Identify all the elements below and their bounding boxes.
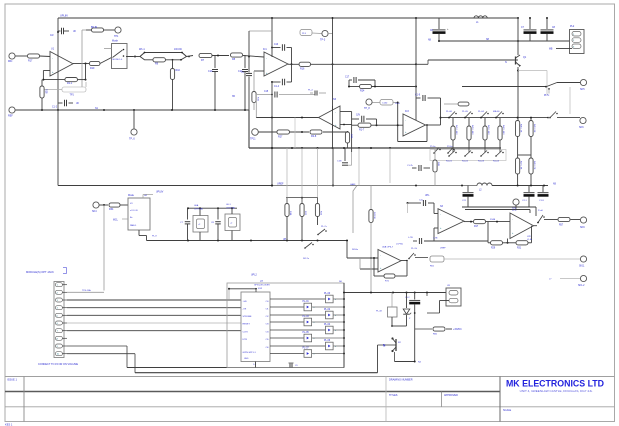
- svg-text:R47 1.8K: R47 1.8K: [520, 161, 522, 170]
- switch after IC6: [408, 258, 410, 260]
- svg-text:C1-4: C1-4: [274, 86, 280, 88]
- capacitor C28 lower: [413, 240, 417, 242]
- svg-text:C17: C17: [345, 77, 350, 79]
- capacitor C15: [257, 94, 272, 96]
- svg-text:MB: MB: [549, 49, 553, 51]
- svg-text:R27: R27: [278, 136, 283, 139]
- wire R60 to label: [446, 328, 452, 330]
- wire bus x272: [271, 18, 273, 57]
- svg-text:SCALE: SCALE: [503, 409, 512, 412]
- wire IC1 output: [288, 63, 299, 65]
- op-amp IC2: [319, 106, 341, 129]
- switch net upper: [317, 234, 319, 236]
- wire x440.5: [440, 98, 442, 125]
- svg-text:BKJN: BKJN: [91, 26, 97, 29]
- connector SK5: [580, 79, 586, 85]
- svg-text:N1-02: N1-02: [462, 161, 469, 163]
- svg-text:JW-1W: JW-1W: [174, 48, 183, 51]
- wire SK4 to R34: [99, 204, 108, 206]
- resistor R40 small top: [458, 102, 469, 106]
- zener diode Z1: [406, 293, 408, 309]
- svg-text:REF: REF: [8, 115, 13, 118]
- svg-text:L1-A: L1-A: [527, 238, 532, 241]
- transistor Q1: [514, 59, 518, 61]
- wire rails to IC5 plus: [535, 207, 537, 216]
- wire +8V rail top: [58, 17, 518, 19]
- svg-text:x: x: [314, 338, 315, 340]
- svg-text:PL-05: PL-05: [462, 111, 469, 113]
- capacitor C40 small left: [310, 92, 313, 94]
- switch net lower: [304, 247, 306, 249]
- svg-text:SK11: SK11: [579, 266, 585, 268]
- bus1 bottom: [127, 367, 344, 369]
- svg-text:P2-0a: P2-0a: [447, 146, 453, 148]
- capacitor C26 input: [407, 202, 409, 204]
- driver D3: [270, 314, 326, 316]
- svg-text:P1-0a: P1-0a: [430, 146, 436, 148]
- wire x58 down to vref: [57, 110, 59, 186]
- svg-text:N1-01: N1-01: [446, 161, 453, 163]
- resistor pair R45 R46: [517, 117, 519, 119]
- capacitor C7 electrolytic: [529, 18, 531, 29]
- svg-text:UPL2: UPL2: [251, 275, 257, 277]
- resistor R30 vertical below op3: [345, 132, 349, 143]
- wire bus x416: [415, 18, 417, 120]
- driver D2: [270, 306, 304, 308]
- capacitor C3 lower on bus: [58, 102, 63, 104]
- resistor R28: [310, 130, 322, 134]
- wire pin2 net: [67, 291, 104, 293]
- wire mode block output: [127, 56, 133, 58]
- svg-text:ISSUE 1: ISSUE 1: [7, 378, 18, 382]
- switch S2: [464, 117, 466, 119]
- capacitor C30: [187, 208, 189, 219]
- svg-text:x: x: [335, 330, 336, 332]
- svg-text:R31: R31: [517, 248, 522, 250]
- svg-text:R17: R17: [474, 226, 479, 228]
- svg-text:x: x: [314, 307, 315, 309]
- driver D7: [270, 345, 326, 347]
- test point TP3: [322, 30, 328, 36]
- svg-text:C10: C10: [208, 70, 213, 73]
- svg-text:CLTK: CLTK: [243, 332, 249, 334]
- svg-text:L-7B: L-7B: [408, 237, 413, 239]
- connector SK13: [446, 288, 461, 306]
- svg-text:R18: R18: [45, 89, 48, 94]
- resistor R4B: [434, 148, 436, 160]
- wire op7 rails: [462, 206, 536, 208]
- wire R7 to R8: [212, 55, 229, 57]
- svg-text:PAIE-1: PAIE-1: [130, 224, 137, 227]
- svg-text:R43 1.8K0: R43 1.8K0: [487, 125, 489, 135]
- wire box bottom: [391, 317, 393, 326]
- driver D1: [270, 298, 326, 300]
- label PL30b box: [380, 100, 393, 106]
- driver D4: [270, 321, 304, 323]
- connector SK11: [580, 256, 586, 262]
- svg-text:R10: R10: [176, 69, 181, 72]
- collector rail x344: [343, 283, 345, 368]
- connector SK6: [580, 117, 586, 123]
- svg-text:IC1: IC1: [263, 48, 267, 51]
- svg-text:STROBE: STROBE: [243, 316, 253, 318]
- resistor R22 vertical: [301, 148, 303, 198]
- connector PL1 pin 1: [55, 283, 62, 287]
- svg-text:C1-2: C1-2: [52, 107, 58, 109]
- svg-text:SK6: SK6: [579, 126, 584, 129]
- svg-text:UP: UP: [283, 239, 287, 241]
- capacitor C21 electrolytic: [467, 186, 469, 193]
- svg-text:TP_6: TP_6: [129, 138, 135, 141]
- crystal rail top: [188, 207, 238, 209]
- svg-text:TP11: TP11: [250, 138, 256, 141]
- wire bus x332: [332, 18, 334, 148]
- resistor R26: [92, 28, 104, 32]
- connector SK12: [580, 275, 586, 281]
- svg-text:+15VDC: +15VDC: [453, 329, 462, 331]
- svg-text:N2-8a: N2-8a: [352, 249, 359, 251]
- svg-text:MB-06: MB-06: [493, 111, 500, 113]
- resistor R16: [299, 62, 311, 66]
- svg-text:C2/: C2/: [50, 35, 54, 37]
- svg-text:PL2: PL2: [570, 25, 575, 28]
- svg-text:x: x: [335, 346, 336, 348]
- connector PL2: [570, 30, 585, 54]
- connector PL1 modules jack: [54, 282, 64, 358]
- capacitor C22: [412, 167, 417, 169]
- wire U7 ground stub: [255, 362, 257, 368]
- switch SB4: [499, 148, 501, 153]
- svg-text:vO1 0 B: vO1 0 B: [130, 210, 138, 212]
- svg-text:UNIT 4, GREENLAW CASTLE, DOUGL: UNIT 4, GREENLAW CASTLE, DOUGLAS, DG7 4J…: [520, 389, 593, 393]
- svg-text:C15: C15: [264, 91, 269, 93]
- svg-text:SK9: SK9: [580, 226, 585, 229]
- connector REF: [9, 107, 15, 113]
- wire pin9 to bus1: [67, 345, 127, 347]
- capacitor C14 feedback bottom: [272, 81, 281, 83]
- capacitor C2 on bus: [58, 30, 61, 32]
- svg-text:CONNECT TO 15 OR ON VOLUME: CONNECT TO 15 OR ON VOLUME: [38, 363, 78, 366]
- svg-text:GND: GND: [244, 358, 249, 360]
- op-amp IC2 output wire: [256, 117, 318, 119]
- wire MIC to R17: [15, 55, 27, 57]
- capacitor C23 electrolytic: [528, 186, 530, 193]
- resistor RL4: [499, 118, 501, 126]
- capacitor C6 electrolytic: [438, 18, 440, 29]
- wire gate Q1: [416, 63, 428, 65]
- op-amp IC6: [378, 250, 401, 273]
- wire R17 to op-amp U1: [40, 55, 51, 58]
- svg-text:CRYSTAL: CRYSTAL: [194, 207, 204, 210]
- svg-text:Mode: Mode: [112, 40, 119, 43]
- test point TP8: [366, 99, 372, 105]
- svg-text:R16: R16: [300, 68, 305, 71]
- svg-text:N1-04: N1-04: [493, 161, 500, 163]
- wire vertical x104 to connector pin2: [103, 205, 105, 291]
- wire R8 to op-amp IC1: [243, 56, 264, 58]
- capacitor C20: [344, 148, 346, 161]
- svg-text:PL-9: PL-9: [152, 236, 157, 238]
- connector PL1 pin 8: [55, 336, 62, 340]
- svg-text:TP1: TP1: [70, 94, 75, 97]
- svg-text:x: x: [335, 299, 336, 301]
- svg-text:PL7x: PL7x: [544, 95, 550, 97]
- svg-text:RESET: RESET: [243, 324, 251, 326]
- resistor R8: [231, 53, 243, 57]
- svg-text:Mode: Mode: [128, 194, 135, 197]
- wire R61 to SK11: [444, 258, 580, 260]
- wire SK13 pin2: [440, 300, 450, 302]
- svg-text:PL-04: PL-04: [324, 324, 331, 326]
- svg-text:GPIO-DECODER: GPIO-DECODER: [254, 285, 270, 287]
- svg-text:R19: R19: [90, 67, 95, 70]
- switch S1: [448, 117, 450, 119]
- resistor RL3: [484, 118, 486, 126]
- resistor R21 vertical: [286, 148, 288, 198]
- svg-text:R4B: R4B: [437, 162, 439, 167]
- svg-text:C2-1: C2-1: [522, 200, 528, 202]
- feedback loop IC3: [397, 103, 399, 142]
- svg-text:R2B: R2B: [350, 134, 352, 139]
- IC U8 mode: [128, 198, 150, 230]
- connector PL1 pin 3: [55, 298, 62, 302]
- resistor R15 vertical: [252, 92, 256, 103]
- resistor R37: [352, 124, 358, 126]
- wire x332 redraw over triangle: [332, 106, 334, 129]
- svg-text:C1-9: C1-9: [539, 200, 545, 202]
- svg-text:UPL8V: UPL8V: [60, 15, 68, 18]
- bus2 bottom: [135, 372, 378, 374]
- resistor pair R47 R48: [516, 158, 520, 174]
- wire IC4 output: [464, 221, 473, 223]
- svg-text:R2-8: R2-8: [311, 135, 317, 138]
- svg-text:U0-1: U0-1: [226, 204, 232, 206]
- capacitor C31: [217, 208, 219, 219]
- connector PL1 pin 4: [55, 306, 62, 310]
- wire ladder bottom rail: [449, 147, 501, 149]
- trimmer RV1: [62, 87, 86, 92]
- capacitor C10 vertical: [214, 55, 216, 68]
- divider rail y197.6: [286, 197, 318, 199]
- resistor RL2: [468, 118, 470, 126]
- svg-text:U0A OP6-7: U0A OP6-7: [382, 246, 394, 249]
- svg-text:IOW: IOW: [258, 288, 262, 290]
- svg-text:L1-4: L1-4: [512, 210, 517, 212]
- svg-text:LABF: LABF: [350, 183, 356, 186]
- capacitor C33 electrolytic: [414, 293, 416, 300]
- svg-text:KES 1: KES 1: [5, 422, 13, 426]
- test point TP11: [252, 129, 259, 136]
- svg-text:1-7B: 1-7B: [433, 238, 438, 240]
- svg-text:UPL: UPL: [425, 195, 430, 197]
- svg-text:N2-7a: N2-7a: [303, 258, 310, 260]
- svg-text:UREF: UREF: [277, 183, 284, 186]
- svg-text:R46 2.2K: R46 2.2K: [533, 124, 535, 133]
- svg-text:R29: R29: [491, 248, 496, 250]
- svg-text:C1N: C1N: [337, 161, 342, 163]
- feedback resistors R29 R31: [487, 222, 489, 243]
- vertical bus x518: [517, 18, 519, 55]
- op-amp IC4: [438, 209, 464, 234]
- svg-text:C1-9: C1-9: [415, 95, 421, 97]
- wire TP11 to R27: [258, 131, 277, 133]
- svg-text:+VE: +VE: [243, 301, 248, 303]
- svg-text:MCL: MCL: [113, 220, 119, 222]
- svg-text:TP-3: TP-3: [320, 39, 326, 42]
- wire R28 to R2B node: [323, 131, 348, 133]
- feedback IC6: [401, 260, 407, 262]
- switch arm inside mode block: [113, 50, 123, 58]
- svg-text:PL-04: PL-04: [478, 111, 485, 113]
- svg-text:PL-02: PL-02: [324, 309, 331, 311]
- svg-text:N1-4: N1-4: [395, 103, 401, 105]
- svg-text:R45 1.2K: R45 1.2K: [520, 124, 522, 133]
- test point TP9: [513, 199, 519, 205]
- driver D8: [270, 353, 304, 355]
- svg-text:APPROVED: APPROVED: [444, 394, 458, 397]
- svg-text:U0A: U0A: [194, 204, 199, 207]
- svg-text:SK1-2: SK1-2: [578, 285, 585, 287]
- svg-text:MODE 1-4: MODE 1-4: [113, 59, 124, 61]
- svg-text:PL-03: PL-03: [303, 316, 310, 318]
- capacitor C24 electrolytic: [542, 186, 544, 193]
- svg-text:PL-00: PL-00: [324, 293, 331, 295]
- resistor R23 vertical: [317, 148, 319, 198]
- capacitor C11 on x249: [246, 72, 252, 74]
- svg-text:PL-7d: PL-7d: [411, 248, 418, 250]
- svg-text:TP1: TP1: [114, 35, 119, 38]
- svg-text:TP_8: TP_8: [364, 107, 370, 110]
- wire U8 bottom to clock rail: [138, 230, 140, 236]
- main rail y148: [249, 147, 501, 149]
- wire pin10 to bus2: [67, 353, 135, 355]
- svg-text:I/O: I/O: [130, 203, 133, 205]
- svg-text:N1-03: N1-03: [478, 161, 485, 163]
- svg-text:IC3: IC3: [405, 110, 409, 113]
- svg-text:R44 1.8K0: R44 1.8K0: [502, 125, 504, 135]
- svg-text:LREF: LREF: [440, 248, 446, 250]
- op-amp IC5: [510, 213, 534, 239]
- capacitor C32 on bus1: [288, 362, 294, 364]
- switch SW5: [545, 86, 547, 88]
- svg-text:PL-06: PL-06: [446, 111, 453, 113]
- wire plus input stub: [254, 70, 264, 72]
- wire feedback vertical: [85, 64, 87, 80]
- wire to R57: [544, 219, 558, 221]
- wire R16 to x416 bus: [311, 63, 417, 65]
- svg-text:PL-01: PL-01: [303, 301, 310, 303]
- svg-text:MK ELECTRONICS LTD: MK ELECTRONICS LTD: [506, 379, 604, 389]
- wire IC2 input pins right: [340, 111, 352, 113]
- svg-text:DRAWING NUMBER: DRAWING NUMBER: [389, 378, 413, 381]
- wire R57 to SK9: [571, 219, 581, 221]
- switch block MODE 1-4: [112, 44, 128, 69]
- svg-text:C1-7b: C1-7b: [407, 165, 414, 167]
- connector PL1 pin 6: [55, 321, 62, 325]
- svg-text:SK4: SK4: [92, 210, 97, 213]
- connector SK9: [580, 217, 586, 223]
- wire x332 lower segment: [332, 148, 334, 186]
- svg-text:R34: R34: [109, 208, 114, 211]
- svg-text:R1B: R1B: [289, 211, 291, 216]
- svg-text:UPL8V: UPL8V: [156, 192, 164, 194]
- resistor R17b: [474, 220, 486, 224]
- capacitor C18: [352, 118, 359, 120]
- wire R34 to U8: [120, 204, 128, 206]
- svg-text:TP4-10A: TP4-10A: [82, 289, 91, 292]
- wire R27 to R28: [290, 131, 310, 133]
- resistor R57: [558, 217, 570, 221]
- connector MIC: [9, 53, 15, 59]
- capacitor C13 feedback top: [272, 47, 281, 49]
- wire pin7 long: [67, 330, 241, 332]
- svg-text:R41 1.8K0: R41 1.8K0: [455, 125, 457, 135]
- feedback resistor R11: [43, 70, 50, 72]
- wire PL2 pin3: [556, 48, 572, 50]
- svg-text:x: x: [335, 315, 336, 317]
- svg-text:LPF: LPF: [527, 236, 532, 238]
- svg-text:C130: C130: [382, 103, 388, 105]
- svg-text:DTR: DTR: [243, 339, 248, 341]
- feedback cap C17 and resistor R24 upper: [349, 79, 352, 81]
- switch S3: [480, 117, 482, 119]
- driver D5: [270, 329, 326, 331]
- switch row right of rail: [433, 152, 435, 154]
- connector SK4: [93, 202, 99, 208]
- wire IC3 output: [426, 124, 441, 126]
- svg-text:PL-06: PL-06: [324, 340, 331, 342]
- label PL30 box: [300, 30, 312, 36]
- resistor R49 vertical on x371: [370, 186, 372, 210]
- svg-text:N: N: [505, 61, 507, 64]
- wire Q2 emitter: [394, 352, 396, 362]
- filter loop top branch: [134, 56, 136, 58]
- svg-text:-VE: -VE: [243, 309, 247, 311]
- wire loop to R7: [187, 56, 194, 57]
- connector PL1 pin 7: [55, 329, 62, 333]
- connector PL1 pin 9: [55, 344, 62, 348]
- svg-text:PL-7x: PL-7x: [321, 226, 328, 228]
- psu rail y292.5: [344, 292, 446, 294]
- IC U7: [241, 292, 270, 362]
- wire pin5 long: [67, 314, 241, 316]
- switch to SK6: [549, 117, 551, 119]
- svg-text:x: x: [314, 322, 315, 324]
- connector PL1 pin 5: [55, 313, 62, 317]
- svg-text:R17: R17: [28, 60, 33, 63]
- switch SB2: [468, 148, 470, 153]
- svg-text:R24: R24: [360, 90, 365, 93]
- svg-text:R1-7: R1-7: [359, 129, 365, 132]
- resistor R61: [430, 256, 444, 262]
- svg-text:PL-4: PL-4: [308, 90, 313, 92]
- test point TP1: [115, 27, 121, 33]
- svg-text:SK5: SK5: [580, 88, 585, 91]
- wire x249 upper segment: [249, 30, 272, 32]
- svg-text:PL-1K: PL-1K: [376, 311, 383, 313]
- resistor R60: [415, 328, 432, 330]
- op-amp IC1: [264, 52, 288, 76]
- wire op7 lower input: [434, 227, 438, 229]
- resistor R27: [277, 130, 290, 134]
- ground rail y110: [15, 109, 249, 111]
- svg-text:PL-07: PL-07: [303, 348, 310, 350]
- outline box lower switch bank: [430, 150, 506, 161]
- wire pin6 stub: [67, 322, 241, 324]
- switch after IC5: [534, 225, 538, 227]
- svg-text:C13: C13: [274, 44, 279, 46]
- wire MCL label: [122, 218, 128, 220]
